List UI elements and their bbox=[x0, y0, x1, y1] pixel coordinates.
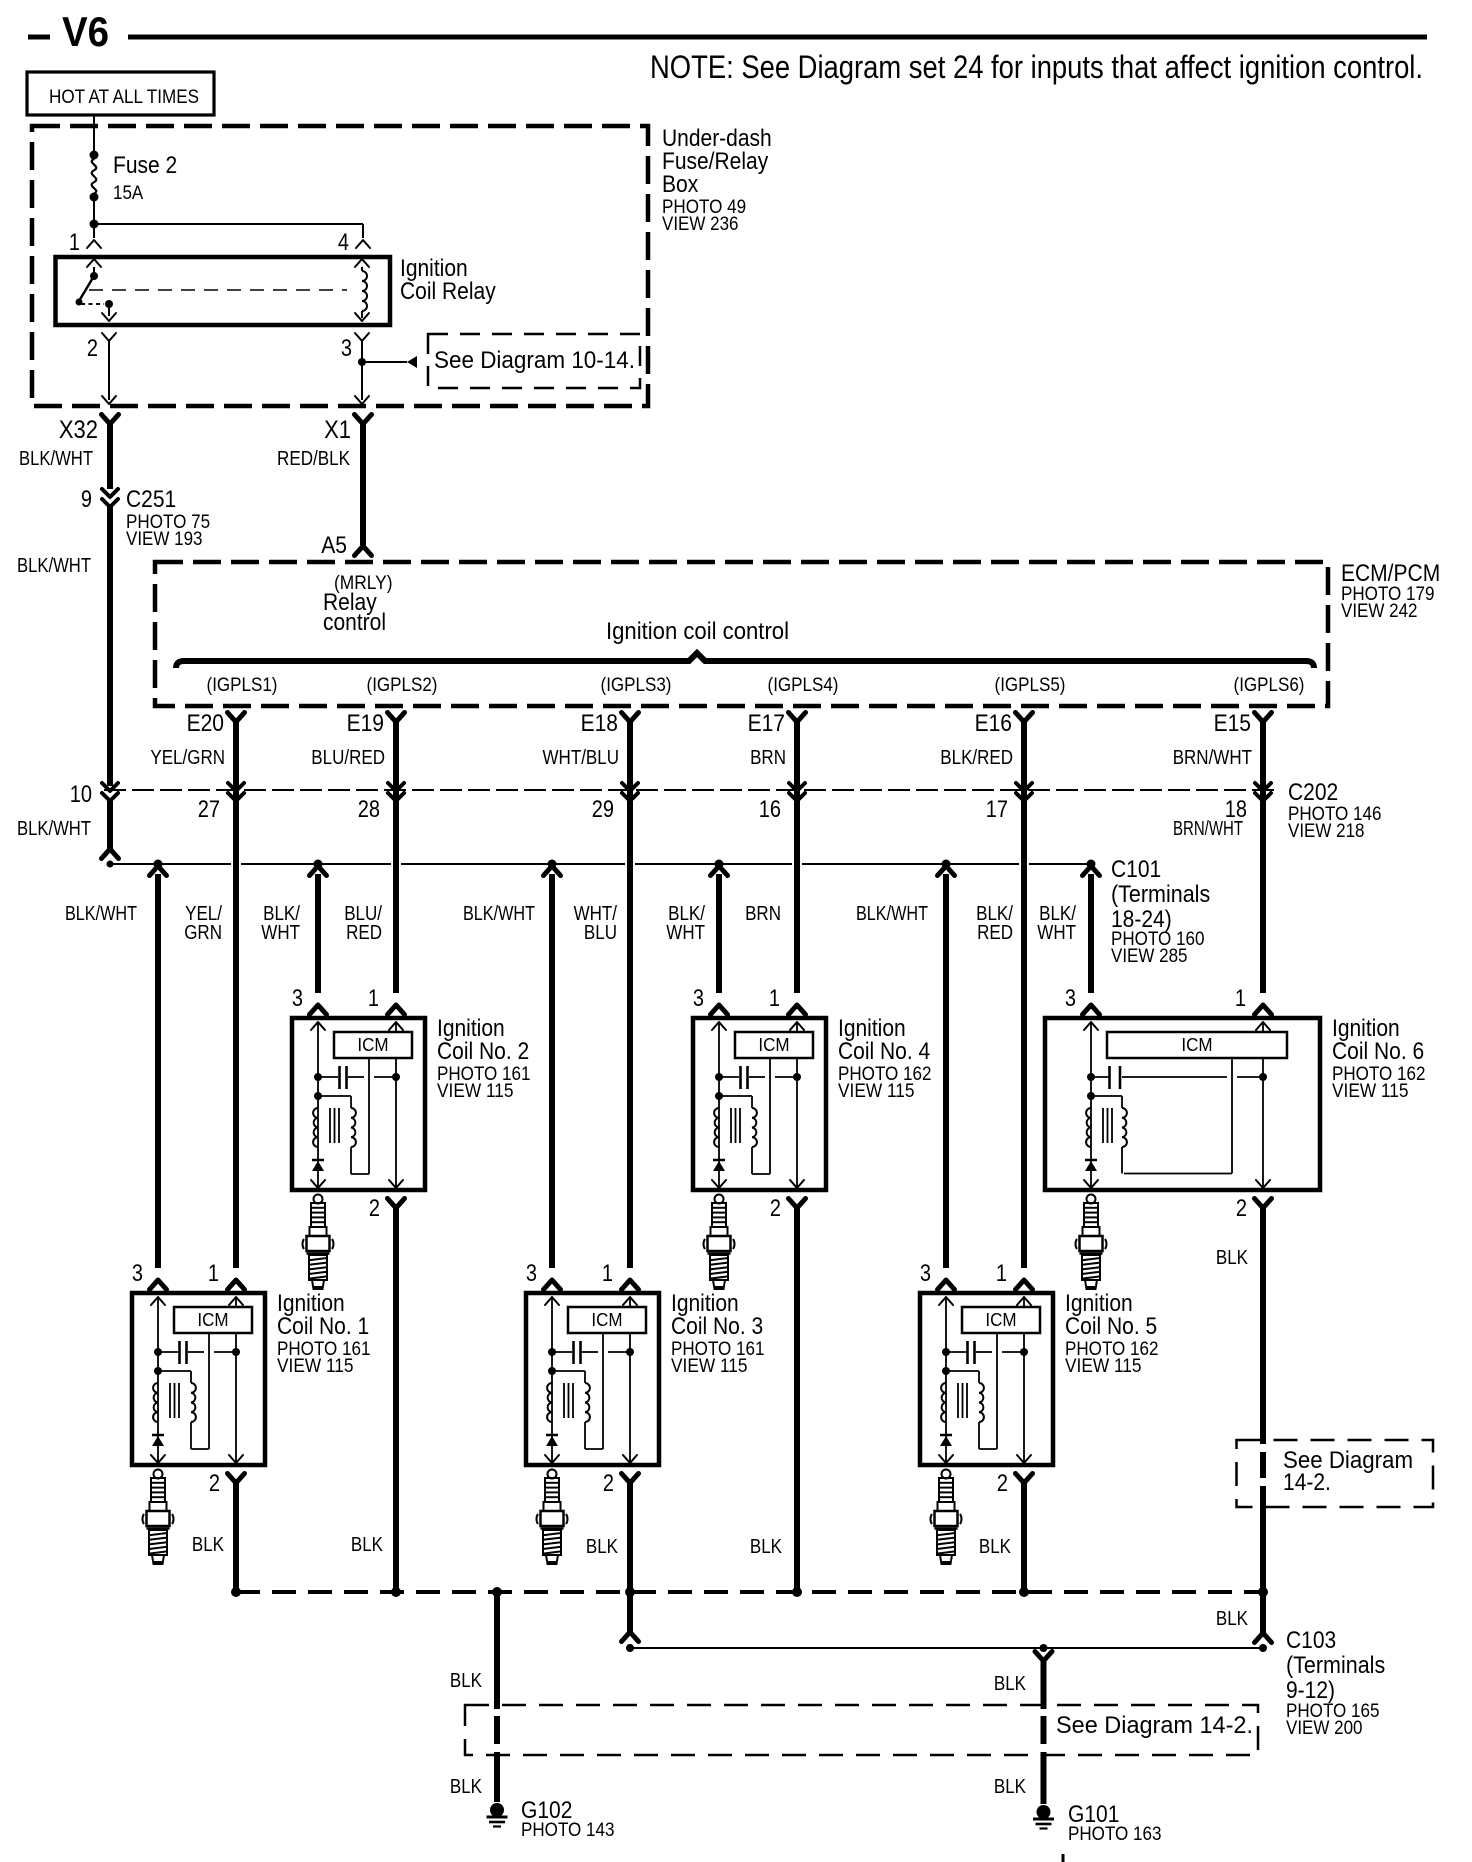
svg-text:E16: E16 bbox=[975, 710, 1012, 737]
svg-text:BLK/WHT: BLK/WHT bbox=[19, 448, 93, 470]
svg-text:1: 1 bbox=[368, 985, 379, 1012]
svg-text:(Terminals: (Terminals bbox=[1111, 881, 1210, 908]
svg-text:BLK: BLK bbox=[586, 1536, 619, 1558]
svg-text:BLK: BLK bbox=[994, 1673, 1027, 1695]
svg-text:VIEW 115: VIEW 115 bbox=[838, 1081, 915, 1102]
svg-text:Ignition coil control: Ignition coil control bbox=[606, 618, 789, 645]
svg-text:VIEW 115: VIEW 115 bbox=[437, 1081, 514, 1102]
svg-text:29: 29 bbox=[592, 796, 614, 823]
svg-text:(IGPLS2): (IGPLS2) bbox=[367, 675, 438, 696]
svg-text:ICM: ICM bbox=[591, 1310, 622, 1330]
svg-text:RED/BLK: RED/BLK bbox=[277, 448, 351, 470]
svg-text:Coil No. 5: Coil No. 5 bbox=[1065, 1313, 1157, 1340]
svg-text:ICM: ICM bbox=[197, 1310, 228, 1330]
svg-text:BLK: BLK bbox=[351, 1534, 384, 1556]
svg-text:A5: A5 bbox=[321, 532, 347, 559]
svg-text:BLU: BLU bbox=[584, 922, 617, 944]
svg-text:(IGPLS6): (IGPLS6) bbox=[1234, 675, 1305, 696]
svg-text:17: 17 bbox=[986, 796, 1008, 823]
svg-text:NOTE: See Diagram set 24 for i: NOTE: See Diagram set 24 for inputs that… bbox=[650, 49, 1423, 85]
svg-text:C202: C202 bbox=[1288, 779, 1338, 806]
svg-text:BLK/WHT: BLK/WHT bbox=[463, 903, 535, 925]
svg-text:BLK: BLK bbox=[192, 1534, 225, 1556]
svg-text:VIEW 193: VIEW 193 bbox=[126, 529, 203, 550]
svg-text:BLK/RED: BLK/RED bbox=[940, 747, 1013, 769]
svg-text:BLK/WHT: BLK/WHT bbox=[17, 818, 91, 840]
svg-text:3: 3 bbox=[292, 985, 303, 1012]
svg-text:VIEW 218: VIEW 218 bbox=[1288, 821, 1365, 842]
svg-text:27: 27 bbox=[198, 796, 220, 823]
svg-text:3: 3 bbox=[920, 1260, 931, 1287]
svg-text:WHT: WHT bbox=[666, 922, 705, 944]
svg-text:RED: RED bbox=[977, 922, 1013, 944]
svg-text:Coil No. 3: Coil No. 3 bbox=[671, 1313, 763, 1340]
svg-text:1: 1 bbox=[208, 1260, 219, 1287]
svg-text:C101: C101 bbox=[1111, 856, 1161, 883]
svg-text:X32: X32 bbox=[59, 416, 98, 444]
svg-text:HOT AT ALL TIMES: HOT AT ALL TIMES bbox=[49, 87, 199, 108]
svg-text:X1: X1 bbox=[324, 416, 351, 444]
svg-text:V6: V6 bbox=[62, 8, 109, 55]
svg-text:E18: E18 bbox=[581, 710, 618, 737]
svg-text:2: 2 bbox=[1236, 1195, 1247, 1222]
svg-text:(IGPLS4): (IGPLS4) bbox=[768, 675, 839, 696]
svg-text:BLK: BLK bbox=[1216, 1247, 1249, 1269]
svg-text:BLK: BLK bbox=[1216, 1608, 1249, 1630]
svg-text:ICM: ICM bbox=[357, 1035, 388, 1055]
svg-text:E15: E15 bbox=[1214, 710, 1251, 737]
svg-text:1: 1 bbox=[769, 985, 780, 1012]
svg-text:BLK: BLK bbox=[994, 1776, 1027, 1798]
svg-text:Box: Box bbox=[662, 171, 698, 198]
svg-text:BRN: BRN bbox=[750, 747, 786, 769]
svg-text:VIEW 115: VIEW 115 bbox=[1332, 1081, 1409, 1102]
svg-text:C103: C103 bbox=[1286, 1627, 1336, 1654]
svg-text:3: 3 bbox=[132, 1260, 143, 1287]
svg-text:Coil No. 1: Coil No. 1 bbox=[277, 1313, 369, 1340]
svg-text:WHT: WHT bbox=[1037, 922, 1076, 944]
svg-text:2: 2 bbox=[209, 1470, 220, 1497]
svg-text:BLK/WHT: BLK/WHT bbox=[856, 903, 928, 925]
svg-text:WHT/BLU: WHT/BLU bbox=[543, 747, 620, 769]
svg-text:PHOTO 163: PHOTO 163 bbox=[1068, 1824, 1162, 1845]
svg-text:3: 3 bbox=[693, 985, 704, 1012]
svg-text:ICM: ICM bbox=[758, 1035, 789, 1055]
svg-text:1: 1 bbox=[996, 1260, 1007, 1287]
svg-text:(IGPLS3): (IGPLS3) bbox=[601, 675, 672, 696]
svg-text:1: 1 bbox=[1235, 985, 1246, 1012]
svg-text:See Diagram 14-2.: See Diagram 14-2. bbox=[1056, 1712, 1253, 1739]
svg-text:E17: E17 bbox=[748, 710, 785, 737]
svg-text:2: 2 bbox=[997, 1470, 1008, 1497]
svg-text:BLU/RED: BLU/RED bbox=[311, 747, 385, 769]
svg-text:BLK: BLK bbox=[450, 1670, 483, 1692]
svg-text:Fuse 2: Fuse 2 bbox=[113, 152, 177, 179]
svg-text:BLK: BLK bbox=[450, 1776, 483, 1798]
svg-text:VIEW 200: VIEW 200 bbox=[1286, 1718, 1363, 1739]
svg-text:Coil No. 6: Coil No. 6 bbox=[1332, 1038, 1424, 1065]
svg-text:C251: C251 bbox=[126, 486, 176, 513]
svg-text:See Diagram 10-14.: See Diagram 10-14. bbox=[434, 347, 635, 374]
svg-text:(IGPLS1): (IGPLS1) bbox=[207, 675, 278, 696]
svg-text:3: 3 bbox=[526, 1260, 537, 1287]
svg-text:10: 10 bbox=[70, 781, 92, 808]
svg-text:VIEW 115: VIEW 115 bbox=[277, 1356, 354, 1377]
svg-text:E20: E20 bbox=[187, 710, 224, 737]
svg-text:VIEW 115: VIEW 115 bbox=[1065, 1356, 1142, 1377]
svg-text:BLK/WHT: BLK/WHT bbox=[65, 903, 137, 925]
svg-text:control: control bbox=[323, 609, 386, 636]
svg-text:9: 9 bbox=[81, 486, 92, 513]
svg-text:3: 3 bbox=[341, 335, 352, 362]
svg-text:VIEW 236: VIEW 236 bbox=[662, 214, 739, 235]
svg-text:(Terminals: (Terminals bbox=[1286, 1652, 1385, 1679]
svg-text:2: 2 bbox=[603, 1470, 614, 1497]
svg-text:ICM: ICM bbox=[1181, 1035, 1212, 1055]
svg-text:WHT: WHT bbox=[261, 922, 300, 944]
svg-text:9-12): 9-12) bbox=[1286, 1677, 1335, 1704]
svg-text:PHOTO 143: PHOTO 143 bbox=[521, 1820, 615, 1841]
svg-text:28: 28 bbox=[358, 796, 380, 823]
svg-text:E19: E19 bbox=[347, 710, 384, 737]
svg-text:BLK: BLK bbox=[979, 1536, 1012, 1558]
svg-text:2: 2 bbox=[770, 1195, 781, 1222]
svg-text:BRN: BRN bbox=[745, 903, 781, 925]
svg-text:2: 2 bbox=[87, 335, 98, 362]
svg-text:GRN: GRN bbox=[184, 922, 222, 944]
svg-text:1: 1 bbox=[69, 229, 80, 256]
svg-text:Coil Relay: Coil Relay bbox=[400, 278, 496, 305]
svg-text:16: 16 bbox=[759, 796, 781, 823]
svg-text:ICM: ICM bbox=[985, 1310, 1016, 1330]
svg-text:VIEW 242: VIEW 242 bbox=[1341, 601, 1418, 622]
svg-text:BLK: BLK bbox=[750, 1536, 783, 1558]
svg-text:15A: 15A bbox=[113, 183, 143, 204]
svg-text:Coil No. 2: Coil No. 2 bbox=[437, 1038, 529, 1065]
svg-text:Coil No. 4: Coil No. 4 bbox=[838, 1038, 930, 1065]
svg-text:VIEW 115: VIEW 115 bbox=[671, 1356, 748, 1377]
svg-text:1: 1 bbox=[602, 1260, 613, 1287]
svg-text:RED: RED bbox=[346, 922, 382, 944]
svg-text:BLK/WHT: BLK/WHT bbox=[17, 555, 91, 577]
svg-text:4: 4 bbox=[338, 229, 349, 256]
svg-text:BRN/WHT: BRN/WHT bbox=[1173, 747, 1252, 769]
svg-text:2: 2 bbox=[369, 1195, 380, 1222]
svg-text:3: 3 bbox=[1065, 985, 1076, 1012]
svg-text:VIEW 285: VIEW 285 bbox=[1111, 946, 1188, 967]
svg-text:(IGPLS5): (IGPLS5) bbox=[995, 675, 1066, 696]
svg-text:ECM/PCM: ECM/PCM bbox=[1341, 560, 1440, 587]
svg-text:BRN/WHT: BRN/WHT bbox=[1173, 818, 1243, 840]
svg-text:YEL/GRN: YEL/GRN bbox=[150, 747, 225, 769]
svg-text:14-2.: 14-2. bbox=[1283, 1469, 1331, 1496]
